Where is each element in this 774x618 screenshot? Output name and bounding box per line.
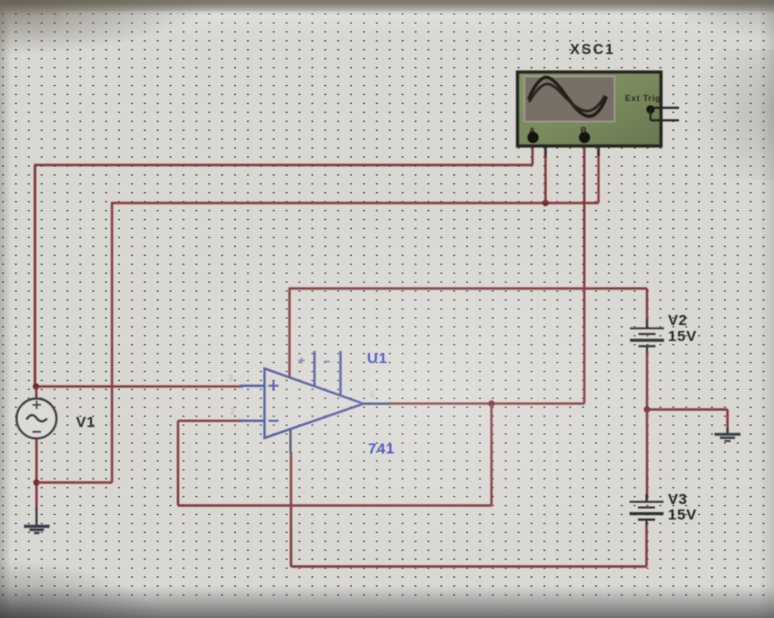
scope Ext Trig terminal — [646, 105, 654, 113]
svg-text:15V: 15V — [668, 507, 697, 524]
op-amp U1 triangle — [265, 369, 364, 439]
wire output net: op-amp output to scope channel B — [388, 142, 584, 404]
oscilloscope waveform trace 2 — [529, 84, 605, 111]
op-amp top pins — [315, 351, 341, 396]
battery V3 — [630, 494, 664, 525]
svg-text:3: 3 — [228, 373, 233, 383]
wire input net: V1+ to op-amp noninverting input — [35, 385, 243, 387]
svg-text:6: 6 — [370, 390, 375, 400]
wire V1 bottom lead to ground junction — [35, 439, 37, 510]
wire ground net: horizontal then up to scope negative posts — [37, 150, 599, 483]
wire input net: V1+ up-left vertical — [34, 165, 37, 387]
wire V2- to mid junction — [646, 351, 648, 410]
svg-text:U1: U1 — [367, 350, 388, 367]
node junction supply midpoint — [644, 406, 650, 412]
svg-text:2: 2 — [230, 406, 235, 416]
node junction V1+ — [33, 383, 39, 389]
node junction scope A negative post drop — [542, 200, 548, 206]
wire feedback loop to inverting input — [178, 404, 492, 506]
op-amp plus input symbol — [269, 381, 279, 391]
svg-text:15V: 15V — [668, 328, 697, 345]
svg-text:Ext Trig: Ext Trig — [625, 93, 661, 103]
ground symbol right — [715, 428, 741, 441]
ground symbol left — [24, 508, 50, 533]
op-amp pin polarity marks — [299, 358, 331, 364]
op-amp output lead — [364, 403, 390, 405]
svg-text:V3: V3 — [668, 491, 687, 508]
oscilloscope screen — [525, 77, 615, 122]
svg-text:V2: V2 — [668, 312, 687, 329]
wire scope B negative post stub — [586, 139, 599, 156]
op-amp faint pin numbers — [228, 373, 375, 416]
svg-text:V1: V1 — [76, 414, 95, 431]
op-amp input leads — [240, 386, 265, 421]
wire positive supply net: V2+ to op-amp VCC pin — [289, 289, 648, 378]
wire input net: top horizontal to scope A — [34, 142, 533, 165]
node junction ground net at V1 — [33, 479, 39, 485]
op-amp minus input symbol — [269, 420, 279, 422]
wire scope A negative post stub — [534, 139, 546, 158]
node junction output feedback tap — [488, 400, 494, 406]
battery V2 — [630, 319, 664, 352]
svg-text:741: 741 — [368, 441, 395, 458]
wire negative supply net: V3- to op-amp VEE pin — [291, 452, 647, 567]
wire V1 top lead — [35, 387, 37, 400]
svg-text:XSC1: XSC1 — [570, 42, 615, 58]
wire mid junction down to V3+ — [646, 410, 648, 501]
wire mid junction to right ground — [647, 410, 728, 434]
wire op-amp VEE pin stub — [289, 429, 291, 453]
AC source V1 — [17, 399, 57, 439]
oscilloscope waveform trace 1 — [529, 77, 607, 116]
